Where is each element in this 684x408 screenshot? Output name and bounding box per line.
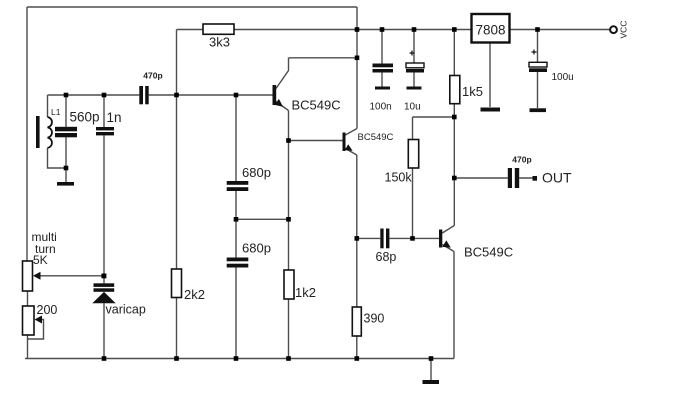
- node 680p mid right: [286, 217, 291, 222]
- wire frame left: [26, 7, 28, 261]
- node rail-varicap: [102, 356, 107, 361]
- wire L1 bottom: [48, 148, 67, 168]
- label 150k: [385, 171, 413, 185]
- node rail-100n: [380, 27, 385, 32]
- wire main node horizontal: [48, 94, 273, 96]
- inductor L1 coil: [48, 117, 52, 148]
- ground bottom center: [423, 380, 440, 384]
- wire supply vertical x357: [356, 7, 358, 129]
- ground 7808: [481, 108, 501, 112]
- wire 10u branch: [413, 30, 415, 87]
- svg-text:68p: 68p: [376, 250, 397, 264]
- node L1-560p bottom: [64, 166, 69, 171]
- label BC549C Q2: [358, 132, 394, 143]
- capacitor 100n: [373, 64, 394, 73]
- capacitor 1n: [96, 127, 114, 135]
- wire 5K wiper to varicap: [40, 275, 104, 277]
- label varicap: [106, 303, 146, 317]
- resistor 1k2: [284, 270, 294, 299]
- wire 7808 ground stub: [489, 43, 491, 108]
- svg-text:390: 390: [364, 312, 385, 326]
- resistor 1k5: [450, 76, 460, 104]
- label 390: [364, 312, 385, 326]
- transistor Q3 emitter arrow: [442, 240, 451, 247]
- wire Q2 collector diagonal: [345, 129, 357, 136]
- node 68p right 150k: [410, 236, 415, 241]
- svg-text:1k2: 1k2: [295, 285, 316, 300]
- capacitor 680p lower: [227, 258, 249, 268]
- node 68p left: [355, 236, 360, 241]
- label 3k3: [209, 34, 230, 49]
- label 470p output: [512, 155, 531, 165]
- label BC549C Q1: [292, 98, 341, 113]
- svg-text:1k5: 1k5: [462, 84, 483, 99]
- wire 200 bottom: [27, 335, 29, 359]
- label 200: [37, 303, 58, 317]
- node 150k-1k5: [452, 115, 457, 120]
- capacitor 680p upper: [227, 181, 249, 191]
- wire Q1 emitter chain: [288, 111, 290, 359]
- node rail-10u: [412, 27, 417, 32]
- wire 1n varicap branch: [103, 95, 105, 359]
- potentiometer 200 body: [23, 306, 35, 335]
- svg-text:BC549C: BC549C: [464, 245, 513, 260]
- transistor Q2 emitter arrow: [345, 144, 353, 151]
- node rail-x357: [355, 27, 360, 32]
- wire 560p branch: [65, 95, 67, 182]
- svg-text:2k2: 2k2: [184, 287, 205, 302]
- transistor Q3 base bar: [439, 230, 442, 248]
- wire 5K to 200: [27, 291, 29, 306]
- inductor L1 core bar: [36, 116, 40, 148]
- wire ground stub bottom: [430, 359, 432, 381]
- svg-text:3k3: 3k3: [209, 34, 230, 49]
- svg-text:1n: 1n: [107, 110, 122, 125]
- wire OUT link: [454, 177, 532, 179]
- wire 2k2 branch vertical: [176, 95, 178, 359]
- svg-text:OUT: OUT: [542, 170, 572, 186]
- ground 100u: [530, 108, 547, 112]
- node main-680p: [234, 93, 239, 98]
- wire frame top: [27, 6, 357, 8]
- label 1k2: [295, 285, 316, 300]
- node 680p mid left: [234, 217, 239, 222]
- capacitor 560p: [55, 127, 77, 138]
- label L1: [51, 107, 61, 117]
- resistor 2k2: [172, 269, 182, 298]
- wire bottom rail: [25, 358, 454, 360]
- label 470p input: [143, 71, 162, 81]
- node main-3k3: [174, 93, 179, 98]
- label 1n: [107, 110, 122, 125]
- svg-text:10u: 10u: [404, 101, 421, 112]
- varicap diode D1: [92, 283, 115, 303]
- node rail-1k2: [286, 356, 291, 361]
- label 680p upper: [242, 165, 271, 180]
- wire 100n branch: [381, 30, 383, 87]
- wire 68p link: [357, 237, 439, 239]
- potentiometer 5K wiper arrow: [33, 272, 41, 280]
- wire Q1 collector to rail: [289, 57, 358, 59]
- svg-text:7808: 7808: [475, 23, 505, 38]
- node rail-100u: [535, 27, 540, 32]
- label 100u: [552, 72, 574, 83]
- terminal VCC: [610, 21, 628, 39]
- node main-560p: [64, 93, 69, 98]
- potentiometer 5K body: [23, 261, 33, 291]
- node rail-2k2: [174, 356, 179, 361]
- transistor Q1 emitter arrow: [275, 99, 283, 107]
- capacitor 100u electrolytic: [529, 50, 547, 73]
- regulator U1 7808 box: [472, 14, 510, 43]
- svg-text:100n: 100n: [370, 101, 392, 112]
- resistor 150k: [408, 140, 418, 169]
- ground 10u: [407, 87, 422, 90]
- wire Q2 emitter diagonal: [345, 149, 357, 156]
- svg-text:150k: 150k: [385, 171, 413, 185]
- wire 100u branch: [537, 30, 539, 109]
- label 2k2: [184, 287, 205, 302]
- label 68p: [376, 250, 397, 264]
- label 10u: [404, 101, 421, 112]
- resistor 3k3: [203, 24, 234, 34]
- transistor Q2 base bar: [343, 133, 346, 152]
- label 680p lower: [242, 241, 271, 256]
- svg-text:200: 200: [37, 303, 58, 317]
- wire Q2 emitter chain: [356, 155, 358, 359]
- svg-text:100u: 100u: [552, 72, 574, 83]
- node rail-ground: [429, 356, 434, 361]
- svg-text:680p: 680p: [242, 241, 271, 256]
- svg-text:560p: 560p: [70, 110, 100, 125]
- transistor Q1 base bar: [273, 85, 277, 105]
- label BC549C Q3: [464, 245, 513, 260]
- capacitor 470p input: [139, 86, 148, 104]
- wire 1k5 vertical: [453, 30, 455, 226]
- node rail-680p: [234, 356, 239, 361]
- wire 3k3 branch vertical: [176, 30, 178, 96]
- svg-text:5K: 5K: [33, 253, 48, 267]
- capacitor 470p output: [508, 168, 519, 188]
- wire 680p chain: [235, 95, 237, 359]
- node rail-1k5: [452, 27, 457, 32]
- wire top supply rail: [177, 29, 612, 31]
- svg-text:470p: 470p: [512, 155, 531, 165]
- potentiometer 200 wiper arrow: [35, 316, 43, 324]
- wire Q2 base link: [289, 140, 343, 142]
- wire L1 top: [47, 95, 49, 117]
- svg-text:varicap: varicap: [106, 303, 146, 317]
- wire 150k branch: [413, 117, 455, 238]
- node main-1n: [102, 93, 107, 98]
- node Q1col-x357: [355, 56, 360, 61]
- label 1k5: [462, 84, 483, 99]
- wire Q3 collector diagonal: [442, 226, 454, 234]
- wire 200 wiper loop: [28, 320, 44, 340]
- capacitor 68p: [380, 229, 389, 249]
- node 5K wiper varicap: [101, 274, 106, 279]
- label multi turn 5K: [32, 230, 57, 267]
- label OUT: [542, 170, 572, 186]
- svg-text:VCC: VCC: [619, 21, 629, 39]
- resistor 390: [352, 307, 361, 336]
- ground 100n: [375, 87, 390, 90]
- label 100n: [370, 101, 392, 112]
- svg-text:680p: 680p: [242, 165, 271, 180]
- capacitor 10u electrolytic: [406, 51, 424, 73]
- wire Q1 emitter diagonal: [276, 102, 289, 111]
- wire Q3 emitter vertical: [453, 252, 455, 359]
- svg-text:BC549C: BC549C: [358, 132, 394, 143]
- ground under L1: [57, 182, 74, 186]
- node OUT tap: [452, 176, 457, 181]
- node rail-390: [355, 356, 360, 361]
- wire Q3 emitter diagonal: [442, 245, 454, 252]
- wire Q1 collector diagonal: [276, 58, 289, 89]
- svg-text:BC549C: BC549C: [292, 98, 341, 113]
- wire 680p mid junction link: [236, 218, 289, 220]
- label 560p: [70, 110, 100, 125]
- node Q2base tap: [286, 138, 291, 143]
- svg-text:470p: 470p: [143, 71, 162, 81]
- svg-text:L1: L1: [51, 107, 61, 117]
- terminal OUT square: [533, 176, 538, 181]
